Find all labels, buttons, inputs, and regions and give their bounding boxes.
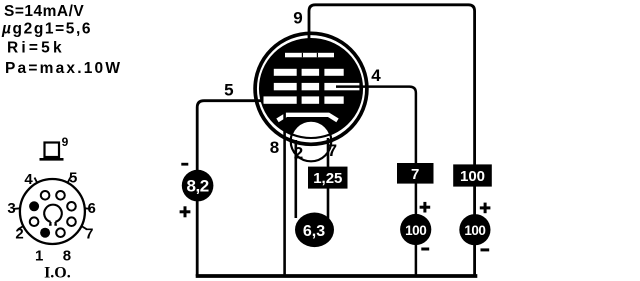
cathode (pin 8) — [278, 115, 338, 121]
capacitor 100 right — [459, 214, 490, 245]
svg-text:8: 8 — [270, 138, 279, 157]
wire pin2 heater down — [294, 140, 297, 218]
socket center key — [44, 205, 62, 225]
svg-text:7: 7 — [328, 141, 337, 160]
wire pin4 to 7-box rail — [336, 87, 416, 276]
battery 6,3 — [295, 213, 334, 248]
minus right rail — [481, 248, 490, 251]
svg-text:100: 100 — [405, 223, 426, 238]
svg-text:S=14mA/V: S=14mA/V — [4, 3, 84, 20]
svg-text:4: 4 — [24, 171, 33, 188]
svg-text:8,2: 8,2 — [187, 176, 209, 195]
plus mid rail — [420, 202, 431, 213]
svg-text:8: 8 — [63, 247, 71, 264]
svg-text:I.O.: I.O. — [44, 265, 71, 281]
svg-text:100: 100 — [464, 223, 485, 238]
socket pin 7 hole — [67, 217, 76, 226]
box 100 right — [453, 164, 492, 186]
svg-text:9: 9 — [293, 8, 302, 27]
grid row 2 dashes (g2 to pin 4) — [274, 83, 297, 90]
socket pin 8 hole — [56, 228, 65, 237]
anode bar (pin 9) — [285, 53, 334, 58]
svg-text:7: 7 — [411, 166, 419, 183]
tube envelope rim — [255, 33, 367, 144]
wire pin5 to left rail — [197, 101, 263, 276]
svg-text:100: 100 — [460, 168, 485, 185]
box 7 — [397, 163, 434, 184]
wire pin9 top to right rail — [309, 5, 475, 276]
svg-text:5: 5 — [224, 81, 233, 100]
top cap symbol (square) — [40, 143, 64, 160]
svg-text:6: 6 — [88, 200, 96, 217]
socket pin 1 hole (filled) — [40, 228, 50, 238]
grid row 1 dashes — [274, 69, 297, 76]
svg-text:2: 2 — [15, 226, 23, 243]
heater circle — [291, 121, 332, 162]
svg-text:9: 9 — [62, 135, 69, 149]
minus above 8,2 — [181, 163, 188, 166]
socket pin 4 hole — [41, 191, 50, 200]
box 1,25 — [308, 167, 348, 189]
socket pin 2 hole — [30, 217, 39, 226]
plus right rail — [480, 203, 491, 214]
wire pin7 heater down — [327, 138, 330, 232]
svg-text:6,3: 6,3 — [303, 223, 325, 240]
socket pin 6 hole — [67, 202, 76, 211]
svg-text:3: 3 — [7, 200, 15, 217]
svg-text:7: 7 — [85, 226, 93, 243]
svg-text:1: 1 — [35, 247, 43, 264]
svg-text:4: 4 — [371, 66, 381, 85]
battery 8,2 — [182, 170, 214, 202]
plus below 8,2 — [180, 206, 191, 217]
svg-text:2: 2 — [294, 144, 303, 163]
tube disc edge — [260, 39, 362, 138]
capacitor 100 mid — [400, 214, 431, 245]
socket outer circle — [20, 179, 85, 244]
svg-text:5: 5 — [69, 170, 77, 187]
svg-text:µg2g1=5,6: µg2g1=5,6 — [1, 21, 92, 38]
svg-text:1,25: 1,25 — [313, 170, 342, 187]
tube U1: black disc — [260, 39, 362, 138]
socket pin 5 hole — [56, 191, 65, 200]
svg-text:Ri=5k: Ri=5k — [7, 39, 65, 56]
minus mid rail — [421, 248, 429, 251]
svg-text:Pa=max.10W: Pa=max.10W — [5, 60, 122, 77]
socket ticks — [14, 178, 91, 230]
grid row 3 dashes (g1 to pin 5) — [264, 96, 297, 103]
wire pin8 cathode down — [283, 113, 286, 277]
bottom wire — [196, 274, 478, 278]
socket pin 3 hole (filled) — [29, 201, 39, 211]
